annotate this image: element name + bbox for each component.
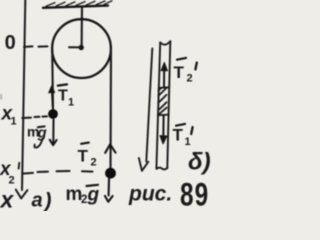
axis x (vertical) — [22, 0, 25, 190]
label x2 — [0, 159, 19, 187]
svg-text:g: g — [87, 185, 100, 206]
tick x2 — [22, 172, 33, 175]
ceiling hatching — [46, 1, 112, 7]
label m1g — [27, 124, 47, 148]
label T1 — [58, 84, 74, 108]
svg-text:2: 2 — [91, 157, 97, 169]
svg-text:0: 0 — [5, 32, 16, 54]
pulley support rod — [81, 7, 84, 47]
mass m1 — [48, 109, 58, 119]
label x1 — [1, 104, 17, 128]
caption: puc.89 — [128, 177, 209, 213]
svg-text:2: 2 — [9, 175, 15, 187]
rope element left side — [156, 43, 160, 169]
dashed line x2 level — [38, 171, 93, 172]
tick x1 — [22, 117, 31, 119]
right rope — [109, 49, 112, 168]
svg-text:a: a — [32, 190, 43, 212]
axis arrowhead — [16, 190, 28, 199]
pulley — [52, 19, 111, 78]
paper speck — [0, 94, 2, 100]
svg-text:2: 2 — [187, 73, 193, 85]
svg-text:2: 2 — [81, 194, 87, 206]
dashed line x1 level — [35, 115, 48, 118]
svg-text:T: T — [58, 88, 68, 105]
ceiling — [43, 6, 108, 8]
vector T1 arrow — [49, 86, 55, 107]
vector T2 arrow — [105, 144, 115, 153]
tick 0 — [24, 45, 33, 48]
vector m2g arrow — [105, 179, 113, 202]
mass m2 — [105, 168, 116, 179]
vector T2' arrow — [161, 62, 167, 87]
label T2' — [174, 58, 197, 85]
svg-text:): ) — [43, 190, 52, 212]
svg-text:T: T — [174, 63, 185, 82]
left rope — [51, 49, 54, 110]
vector m1g arrow — [50, 120, 57, 146]
rope element top cap — [160, 41, 170, 44]
svg-text:x: x — [0, 187, 15, 212]
label m2g — [66, 184, 100, 206]
svg-text:1: 1 — [185, 136, 191, 148]
svg-text:89: 89 — [180, 177, 209, 211]
hatched cross-section band — [158, 87, 170, 115]
svg-text:m: m — [66, 184, 83, 205]
svg-text:T: T — [78, 147, 89, 166]
svg-text:1: 1 — [68, 97, 74, 109]
svg-text:T: T — [173, 126, 184, 145]
pulley axle dot — [79, 45, 84, 50]
label T1' — [173, 124, 193, 148]
vector T1' arrow — [160, 116, 167, 144]
dashed line 0 level — [39, 46, 81, 47]
rope element bottom cap — [156, 168, 167, 170]
svg-text:рис.: рис. — [128, 183, 172, 206]
rope element right side — [167, 41, 170, 168]
svg-text:1: 1 — [11, 116, 17, 128]
label T2 — [78, 143, 97, 169]
svg-text:δ): δ) — [188, 149, 211, 176]
rope element long arrow (figure b) — [139, 49, 152, 171]
